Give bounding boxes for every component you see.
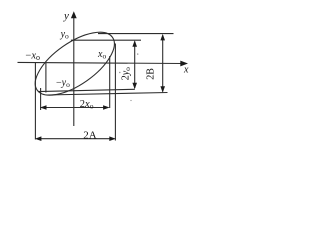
- svg-text:−yo: −yo: [56, 77, 70, 89]
- svg-text:2B: 2B: [146, 68, 157, 80]
- svg-text:2xo: 2xo: [80, 99, 94, 111]
- svg-text:2yo: 2yo: [120, 67, 132, 80]
- svg-text:yo: yo: [60, 29, 69, 41]
- svg-text:−xo: −xo: [25, 51, 40, 63]
- svg-text:y: y: [63, 10, 69, 22]
- svg-text:2A: 2A: [83, 129, 97, 141]
- svg-text:x: x: [183, 64, 189, 75]
- svg-text:xo: xo: [97, 49, 106, 61]
